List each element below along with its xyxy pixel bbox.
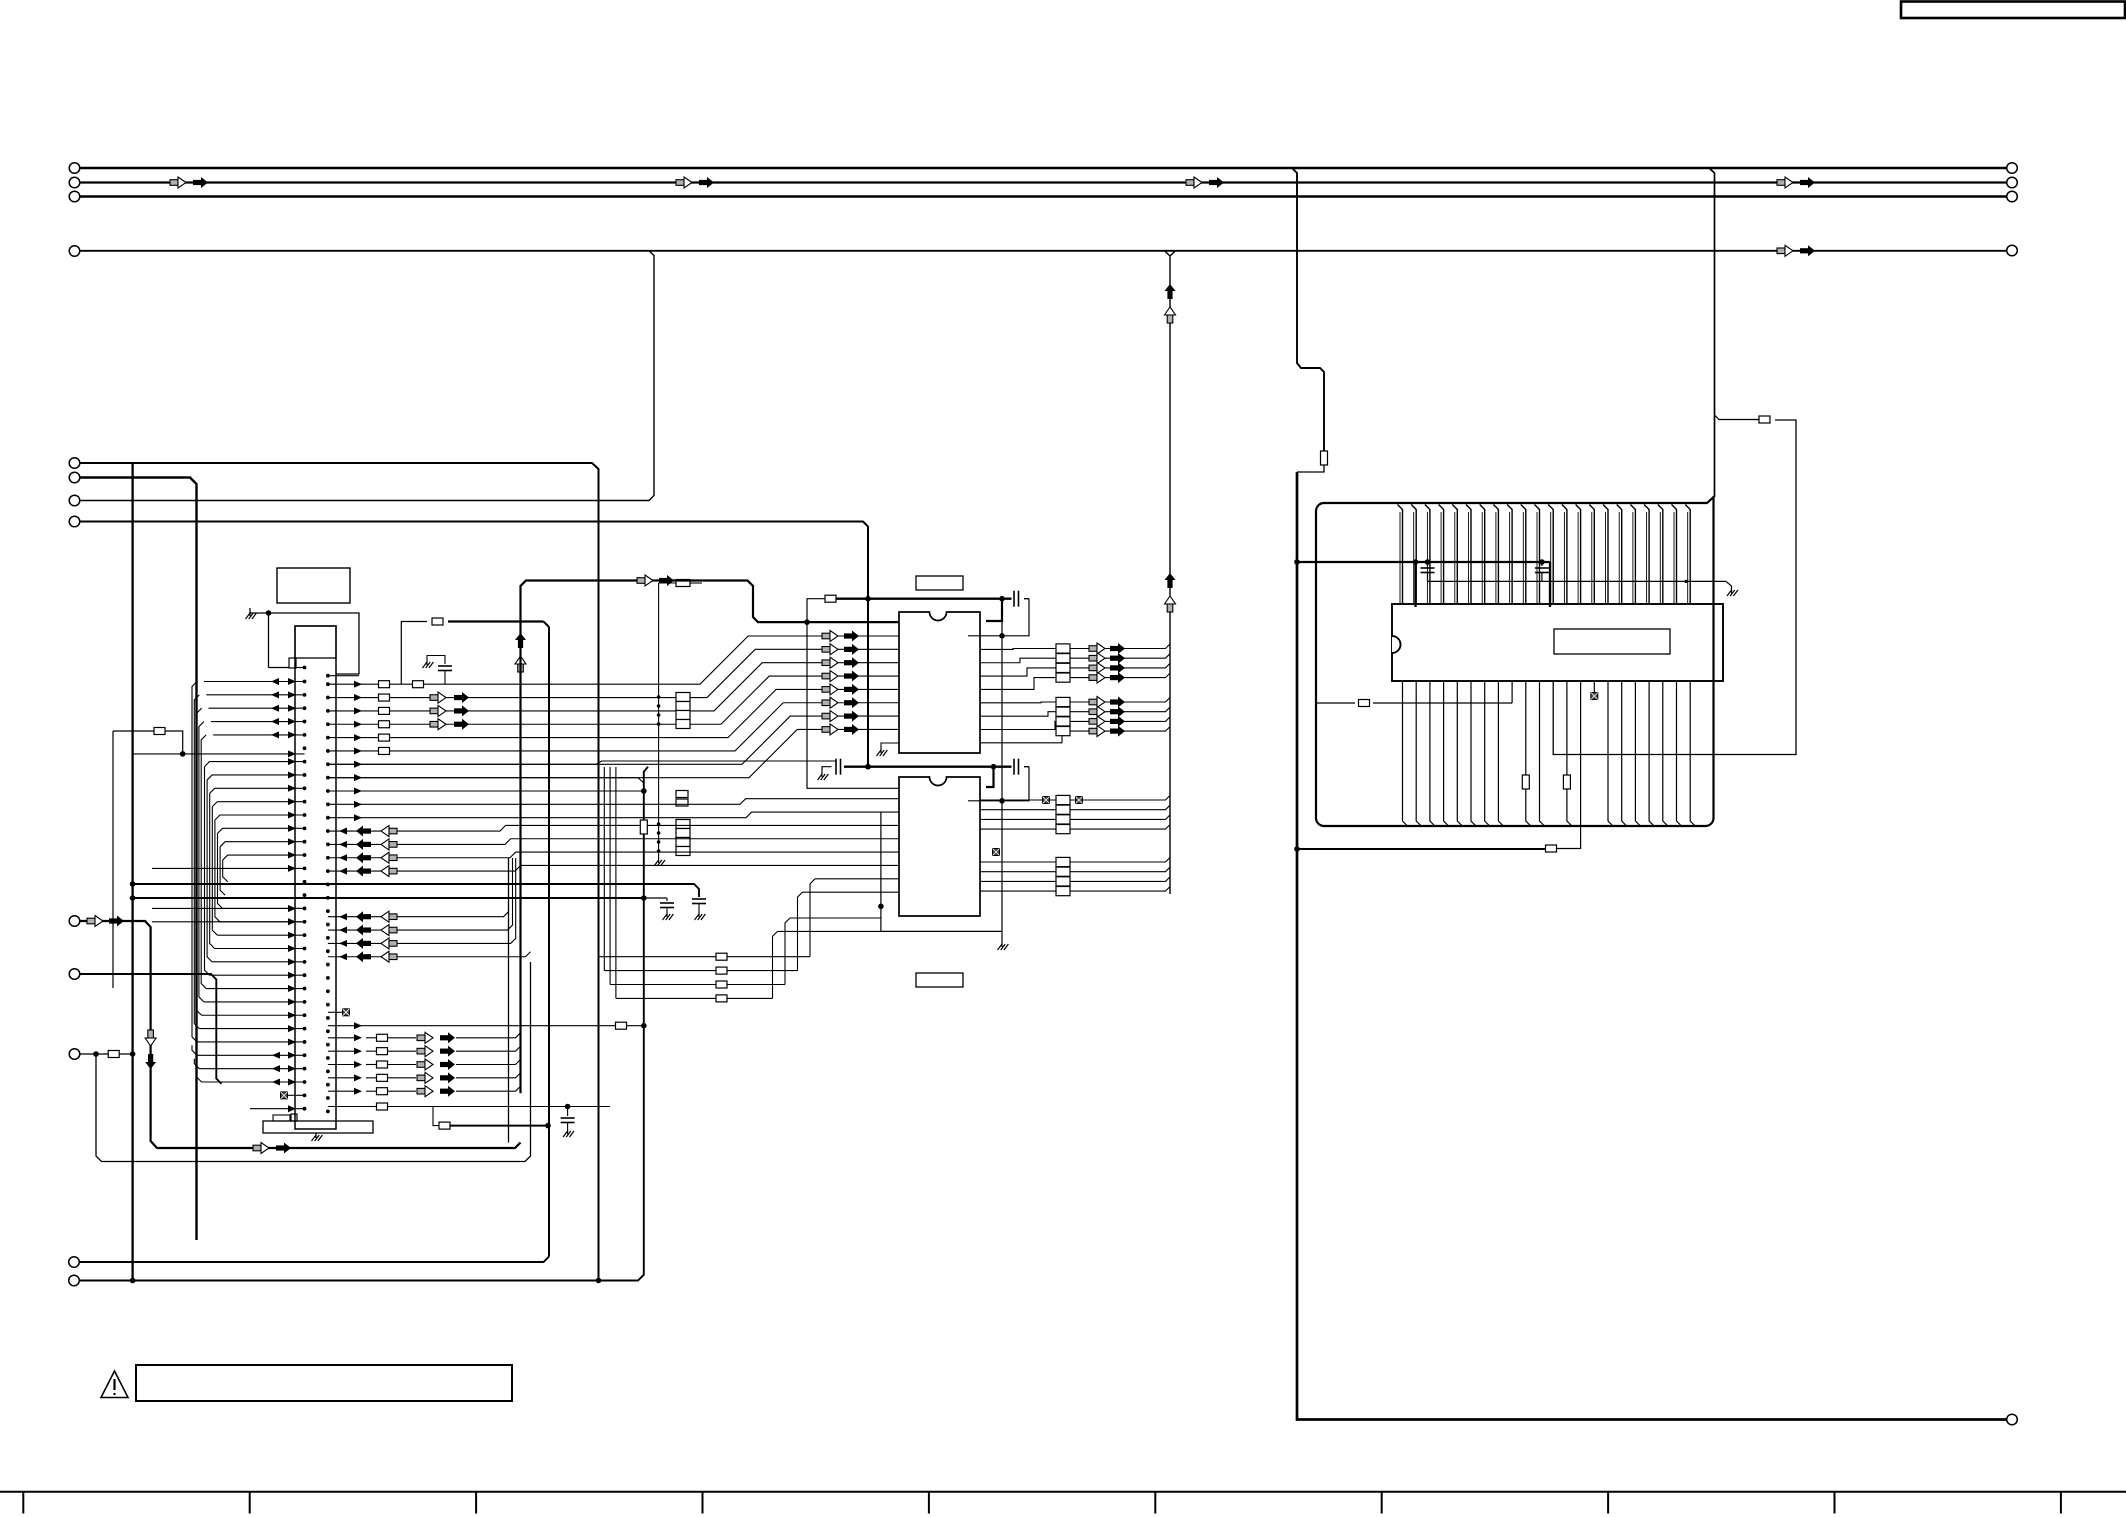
signal arrows y=580.5 <box>637 578 645 584</box>
signal direction arrows on bus line 2 at x=1186 <box>1186 180 1194 186</box>
risers x=512-516 <box>512 858 514 926</box>
ground at CN6001 bottom <box>315 1133 317 1138</box>
junction dot x=807 on y=622 wire <box>804 619 810 625</box>
resistor R6041 <box>1759 416 1770 423</box>
CN6001 loopback wire bundle P <box>192 682 197 1042</box>
riser x=508.5 from y=1148 wire to input row <box>508 858 510 1143</box>
terminal T13 (left, y=521.5) <box>69 516 80 527</box>
pull-up common rail for RA6001/RA6002 <box>658 583 660 858</box>
junction dot y=884 x=132.6 <box>130 881 136 887</box>
junction dot y=1106.5 <box>565 1104 571 1110</box>
resistor R6004 (on vertical jog) <box>1321 451 1328 465</box>
junction dot at CN6001 shell corner <box>266 610 272 616</box>
ground at RA rail bottom <box>658 858 660 863</box>
up arrows on x=520.5 vertical <box>515 633 526 640</box>
IC6001 output arrows <box>1089 646 1097 652</box>
CN6001 row 8 to R6016 net <box>328 790 644 792</box>
IC6001 input rows with arrows <box>818 635 899 637</box>
CN6001 input rows group A with block arrows <box>328 825 899 831</box>
wire vertical from bus1 with jog and R6004 down to bottom-right terminal <box>1292 168 1324 452</box>
signal direction arrows on bus line 2 at x=1777 <box>1777 180 1785 186</box>
CN6001 shell pin dots <box>303 666 307 670</box>
wire vertical x=1170 from bus4 junction <box>1165 251 1171 894</box>
capacitor C6001 <box>1013 591 1015 607</box>
resistor network RA6001 <box>676 693 690 702</box>
ground C6006 <box>666 912 668 917</box>
module lower feed wire <box>1297 848 1546 850</box>
VCC elbow into IC6002 <box>986 767 994 787</box>
terminal T2 <box>69 177 80 188</box>
module M6001 flex cable wires (top section) <box>1398 505 1403 605</box>
terminal T11 (left, y=477.5) <box>69 472 80 483</box>
bead FB6 on CN6001 right row <box>343 1009 350 1016</box>
terminal T1 (top-left) <box>69 163 80 174</box>
wire bus line 4 <box>80 250 2007 252</box>
ground C6007 <box>698 912 700 917</box>
capacitor C6003 (right) <box>1013 759 1015 775</box>
wire from T11 right then down at x=196.5 <box>80 478 197 1241</box>
resistor R6032 <box>676 799 688 806</box>
signal direction arrows on bus line 4 <box>1777 248 1785 254</box>
VCC elbow into IC6001 <box>986 599 1002 621</box>
terminal T7 <box>2007 191 2018 202</box>
bead FB5 below IC6004 <box>1591 693 1598 700</box>
CN6001 left outgoing rows <box>192 1045 305 1055</box>
IC6001 VCC rail wire <box>836 598 1012 600</box>
signal up-arrows near bus on x=1170 <box>1165 284 1176 291</box>
ground for C6005 <box>426 660 428 665</box>
wire/ground left of C6002 <box>822 767 832 772</box>
signal arrows on T14 wire <box>87 918 95 924</box>
capacitor C6008 to ground <box>567 1107 569 1117</box>
module wire to right frame <box>1553 420 1796 755</box>
bead FB3 <box>1076 797 1083 804</box>
resistor R6020 <box>108 1051 119 1058</box>
ruler base line <box>0 1491 2126 1493</box>
junction dot y=898 at x=643.8 <box>641 895 647 901</box>
junction dot on x=1297 at module lower feed <box>1294 846 1300 852</box>
capacitor C6002 (left) <box>835 759 837 775</box>
resistor R6033 on CN row 0 <box>413 681 424 688</box>
terminal T16 (left, y=1054) <box>69 1049 80 1060</box>
ruler ticks <box>22 1492 24 1514</box>
CN6001 left middle rows <box>152 867 305 869</box>
module VCC wire y=562 <box>1297 561 1550 563</box>
junction dot x=132.6 on T18 wire <box>130 1278 136 1284</box>
wire distribution y=884 <box>133 884 699 897</box>
CN6001 left rows 1-5 bidirectional wires <box>204 681 305 683</box>
wire caps feed <box>644 897 667 899</box>
resistor R6001 on VCC rail <box>825 595 836 602</box>
terminal T9 (bottom right) <box>2007 1414 2018 1425</box>
IC6002 output rows <box>980 796 1170 801</box>
module left pin wire with resistor R6040 <box>1316 702 1355 704</box>
terminal T18 (left, y=1280.5) <box>69 1275 80 1286</box>
caution triangle <box>101 1371 128 1398</box>
revision box (top right) <box>1901 2 2125 19</box>
module M6001 outline <box>1316 497 1714 826</box>
wire vertical from bus1 to module top-right corner (x=1714) <box>1709 168 1715 497</box>
junction dot x=868 end on IC6002 rail <box>865 764 871 770</box>
IC6001 label box <box>916 576 963 590</box>
connector CN6001 left pin dots <box>303 680 307 684</box>
junction dot IC6002 pin1 bar <box>999 798 1005 804</box>
junction dot IC6002 rail at x=868 <box>865 764 871 770</box>
block arrows on CN6001-IC6001 rows <box>430 695 438 701</box>
resistor network RA6006 <box>1056 857 1070 866</box>
CN6001 input rows with block arrows <box>328 912 509 917</box>
resistor network RA6005 <box>1056 795 1070 804</box>
wire thick x=520.5 loop <box>521 581 900 1094</box>
wire from T10 right then down at x=598.5 <box>80 463 599 1281</box>
connector CN6001 inner top section <box>295 626 336 658</box>
ground at CN6001 shell <box>249 611 251 616</box>
resistor R6042 (vertical, in module) <box>1522 775 1529 789</box>
wire row y=754 <box>133 753 305 755</box>
ground module <box>1731 588 1733 593</box>
wire from T14 with arrows, down at x=150.6 <box>80 921 521 1148</box>
wire continue x=868 to IC6002 VCC rail <box>867 599 869 767</box>
module GND wire y=581.4 <box>1428 580 1727 582</box>
caution note box <box>136 1365 512 1401</box>
wire from T18 right, up at x=643.8 <box>80 767 649 1281</box>
junction dot x=598.5 on T18 wire <box>596 1278 602 1284</box>
wire from T13 right, corner down at x=868 <box>80 522 868 599</box>
IC6002 ground vertical x=1002 <box>1001 599 1003 942</box>
terminal T10 (left, y=463) <box>69 458 80 469</box>
wire ground to CN6001 shell <box>250 612 269 614</box>
IC6004 body (inside module) <box>1392 604 1723 681</box>
junction dot VCC rail right <box>999 596 1005 602</box>
wire bus line 2 <box>80 181 2007 183</box>
connector CN6001 bottom notch <box>273 1115 290 1121</box>
terminal T6 <box>2007 177 2018 188</box>
bead FB2 <box>1043 797 1050 804</box>
module M6001 flex cable wires (bottom section) <box>1403 681 1408 826</box>
bead FB1 on CN6001 left row <box>281 1092 288 1099</box>
terminal T8 <box>2007 245 2018 256</box>
junction dot y=1125.6 <box>545 1123 551 1129</box>
wires with resistors R6011-R6014 to IC6002 <box>599 956 717 958</box>
resistor R6016 on x=643.8 <box>640 820 647 834</box>
terminal T4 <box>69 246 80 257</box>
wire thin return y=1161.5 from T16 net <box>96 962 531 1162</box>
IC6002 body <box>899 777 980 916</box>
bead FB4 <box>993 849 1000 856</box>
capacitor C6010 <box>1427 562 1429 566</box>
wire row y=1025.7 with resistor R6015 <box>328 1025 616 1027</box>
resistor R6031 <box>676 791 688 798</box>
connector CN6001 bottom tab <box>291 1114 297 1121</box>
terminal T17 (left, y=1262) <box>69 1257 80 1268</box>
wire from T15 right then down at x=216.3 <box>80 974 222 1084</box>
junction dot x=868 on IC6001 rail <box>865 596 871 602</box>
wire distribution y=898 <box>133 897 644 899</box>
resistor R6021 cluster <box>113 730 154 732</box>
signal arrows on y=1148 wire <box>253 1145 261 1151</box>
wire R6041 to x=1714 vertical <box>1715 415 1760 420</box>
CN6001 last output row <box>328 1106 376 1108</box>
junction dot frame <box>878 904 884 910</box>
resistor network RA6003 <box>1056 644 1070 653</box>
resistor network RA6004 <box>1056 697 1070 706</box>
signal direction arrows on bus line 2 at x=170 <box>170 180 178 186</box>
connector CN6001 right pin dots <box>326 682 330 686</box>
wire from T17 right, up at x=549 <box>80 1257 550 1263</box>
CN6001 output rows with block arrows <box>328 1037 356 1039</box>
ground stub IC6001 <box>881 743 899 748</box>
resistor network RA6002 <box>676 820 690 829</box>
IC6001 output rows <box>980 644 1170 649</box>
wire vertical x=654 from bus4 to net of terminal T12 <box>80 251 654 501</box>
IC6002 frame wire <box>881 812 1002 931</box>
wire C6001 to IC6001 pin1 bar <box>968 599 1029 636</box>
CN6001 shell pin wires <box>296 667 305 669</box>
IC6004 inner label box <box>1554 629 1670 654</box>
ground C6008 <box>567 1129 569 1134</box>
junction dot on x=132.6 at y=1054 <box>130 1051 136 1057</box>
terminal T3 <box>69 191 80 202</box>
IC6002 label box <box>916 973 963 987</box>
CN6001 row 6 long wire <box>328 761 836 764</box>
junction dot x=182.7 y=754 <box>180 751 186 757</box>
junction dot after T16 <box>93 1051 99 1057</box>
terminal T12 (left, y=500) <box>69 495 80 506</box>
junction dots on VCC wire <box>1413 559 1419 565</box>
junction dot IC6002 rail right <box>991 764 997 770</box>
resistor R6043 (vertical, in module) <box>1563 775 1570 789</box>
wire from R6001 left down to IC6002 top pin <box>807 599 899 789</box>
wire bus line 1 <box>80 167 2007 170</box>
junction dot y=898 x=132.6 <box>130 895 136 901</box>
resistor R6034 <box>432 618 443 625</box>
capacitor C6011 <box>1541 562 1543 566</box>
junction dot pin1 bar <box>999 633 1005 639</box>
connector CN6001 bottom bracket <box>263 1121 373 1133</box>
verticals feeding R6011-R6014 <box>598 767 600 957</box>
wire bus line 3 <box>80 195 2007 198</box>
connector CN6001 side tab <box>289 658 296 668</box>
capacitor C6007 to ground <box>692 898 706 900</box>
wire main vertical x=1297 down to bottom wire and terminal <box>1297 472 2007 1420</box>
wire C6003 to IC6002 pin1 bar <box>968 767 1029 801</box>
IC6001 body <box>899 612 980 753</box>
IC6002 VCC rail wire <box>844 766 1012 768</box>
signal up-arrows mid on x=1170 <box>1165 573 1176 580</box>
terminal T5 (top-right) <box>2007 163 2018 174</box>
junction tick <box>1684 580 1687 583</box>
terminal T15 (left, y=974) <box>69 969 80 980</box>
terminal T14 (left, y=921) <box>69 916 80 927</box>
CN6001 left last row <box>250 1108 305 1110</box>
resistor R6030 <box>659 582 676 584</box>
connector CN6001 body <box>295 626 336 1129</box>
wire from T16 through resistor R6020 to x=132.6 junction <box>80 1053 133 1055</box>
junction dot x=643.8 y=1025.7 <box>641 1023 647 1029</box>
CN6001 to IC6001 data wires <box>328 636 818 684</box>
capacitor C6005 with ground <box>427 656 445 665</box>
connector CN6001 outer shell <box>269 613 360 674</box>
junction dot on x=1297 at module VCC feed <box>1294 559 1300 565</box>
ground at x=1002 <box>1001 942 1003 947</box>
signal down-arrows on x=150.6 <box>145 1038 156 1046</box>
connector CN6001 label box <box>277 568 350 603</box>
wire branch down from T10 wire at x=132.6 <box>131 463 133 1281</box>
CN6001 to IC6002 wires <box>328 799 899 805</box>
signal direction arrows on bus line 2 at x=676 <box>676 180 684 186</box>
thick rail y=621.5 with R6034 down x=549 <box>401 622 427 685</box>
CN6001 row 7 to R6016 rail <box>328 778 644 784</box>
CN6001 loopback wire bundle Q <box>205 762 305 767</box>
capacitor C6006 to ground <box>666 898 668 901</box>
